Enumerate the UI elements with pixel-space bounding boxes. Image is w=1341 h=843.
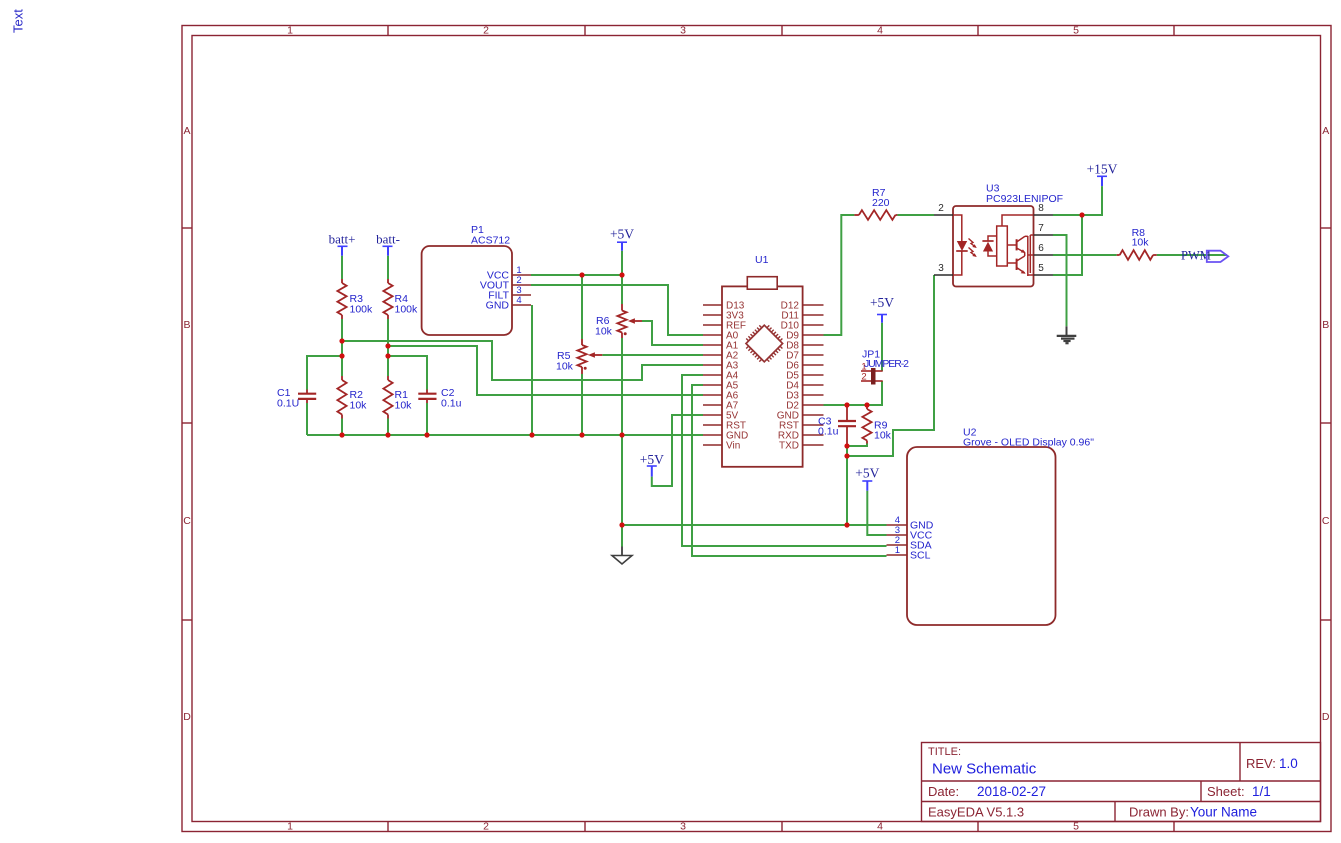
wire net A3 (342, 341, 703, 380)
U1 pin D10 (right) (781, 321, 824, 332)
wire D2 net (824, 381, 883, 405)
junction (619, 522, 624, 527)
junction (619, 272, 624, 277)
junction (619, 432, 624, 437)
svg-text:A: A (183, 125, 190, 137)
wire (426, 403, 428, 435)
U2 pin 2 SDA (887, 535, 932, 552)
wire (341, 256, 343, 279)
wire (1157, 254, 1227, 256)
resistor R4 100k (383, 279, 418, 319)
svg-text:10k: 10k (595, 326, 613, 338)
power flag +5V (855, 466, 879, 491)
trimmer R5 10k (556, 339, 602, 374)
U3 internal wiring (1002, 215, 1034, 276)
svg-text:Date:: Date: (928, 784, 959, 799)
junction (385, 353, 390, 358)
U1 pin A4 (left) (703, 371, 739, 382)
wire (387, 319, 389, 376)
svg-text:1/1: 1/1 (1252, 784, 1271, 799)
svg-text:B: B (183, 319, 190, 331)
U1 pin D4 (right) (786, 381, 823, 392)
U1 pin D9 (right) (786, 331, 823, 342)
U1 pin D12 (right) (781, 301, 824, 312)
svg-text:batt-: batt- (376, 232, 400, 247)
U1 pin A0 (left) (703, 331, 739, 342)
U1 pin 3V3 (left) (703, 311, 744, 322)
optocoupler U3 PC923LENIPOF (953, 183, 1063, 287)
wire (1053, 254, 1117, 256)
wire +5V to U2 VCC (867, 491, 886, 535)
svg-text:Vin: Vin (726, 441, 740, 452)
junction (1079, 212, 1084, 217)
wire 5V pin to +5V (652, 415, 703, 486)
wire A4 to SDA (682, 375, 887, 546)
wire (387, 256, 389, 279)
U3 internal LED (953, 215, 968, 275)
U1 pin A3 (left) (703, 361, 739, 372)
IC U2 Grove OLED Display (907, 427, 1094, 626)
svg-text:0.1u: 0.1u (818, 426, 839, 438)
svg-text:5: 5 (1038, 263, 1044, 274)
svg-text:10k: 10k (874, 430, 892, 442)
junction (579, 432, 584, 437)
svg-text:0.1U: 0.1U (277, 398, 299, 410)
capacitor C2 0.1u (418, 387, 461, 410)
svg-text:10k: 10k (350, 400, 368, 412)
P1 pin 1 VCC (487, 265, 531, 282)
U3 amplifier block (997, 226, 1008, 266)
junction (579, 272, 584, 277)
junction (385, 432, 390, 437)
wire pin5 riser (1053, 215, 1082, 275)
svg-text:1: 1 (895, 545, 900, 556)
U1 pin RXD (right) (778, 431, 824, 442)
ground (triangle) (612, 547, 632, 565)
svg-text:4: 4 (877, 25, 883, 37)
U1 pin 5V (left) (703, 411, 739, 422)
U2 pin 1 SCL (887, 545, 931, 562)
svg-text:+5V: +5V (855, 466, 879, 481)
svg-text:U1: U1 (755, 254, 769, 266)
U1 pin D13 (left) (703, 301, 745, 312)
svg-text:4: 4 (516, 295, 521, 306)
wire (581, 275, 583, 339)
svg-text:3: 3 (680, 821, 686, 833)
wire pin8 to +15V (1053, 186, 1102, 215)
wire (621, 275, 623, 304)
svg-text:3: 3 (680, 25, 686, 37)
svg-text:1: 1 (287, 821, 293, 833)
U1 pin D8 (right) (786, 341, 823, 352)
P1 pin 4 GND (486, 295, 531, 312)
svg-text:GND: GND (486, 300, 510, 312)
svg-text:+5V: +5V (640, 452, 664, 467)
power flag +5V (610, 227, 634, 251)
net flag PWM (1181, 249, 1228, 263)
svg-text:batt+: batt+ (329, 232, 356, 247)
junction (844, 443, 849, 448)
svg-text:Drawn By:: Drawn By: (1129, 805, 1189, 820)
P1 pin 2 VOUT (480, 275, 531, 292)
junction (385, 343, 390, 348)
resistor R3 100k (337, 279, 373, 319)
svg-text:2: 2 (483, 821, 489, 833)
U1 pin D7 (right) (786, 351, 823, 362)
junction (339, 338, 344, 343)
IC P1 ACS712 (422, 224, 512, 335)
svg-text:+15V: +15V (1087, 162, 1118, 177)
capacitor C3 0.1u (818, 405, 856, 446)
junction (339, 353, 344, 358)
wire A5 to SCL (692, 385, 887, 556)
junction (844, 522, 849, 527)
svg-text:1: 1 (287, 25, 293, 37)
P1 pin 3 FILT (488, 285, 531, 302)
junction (844, 402, 849, 407)
svg-text:Grove - OLED Display 0.96": Grove - OLED Display 0.96" (963, 437, 1094, 449)
junction (844, 453, 849, 458)
power flag +5V (640, 452, 664, 477)
jumper JP1 JUMPER-2 (861, 349, 909, 385)
svg-text:TXD: TXD (779, 441, 799, 452)
wire GND bus 2 (622, 524, 887, 526)
svg-text:SCL: SCL (910, 550, 931, 562)
U3 photodiode (982, 236, 996, 256)
svg-text:3: 3 (938, 263, 944, 274)
U1 pin RST (right) (779, 421, 824, 432)
svg-text:2: 2 (483, 25, 489, 37)
svg-text:10k: 10k (1132, 237, 1150, 249)
U2 pin 3 VCC (887, 525, 933, 542)
wire (581, 374, 583, 435)
U1 pin D5 (right) (786, 371, 823, 382)
resistor R8 10k (1117, 227, 1157, 260)
svg-text:6: 6 (1038, 243, 1044, 254)
wire net A6 (388, 346, 703, 395)
U1 pin A5 (left) (703, 381, 739, 392)
U1 pin A2 (left) (703, 351, 739, 362)
svg-text:100k: 100k (395, 304, 419, 316)
capacitor C1 0.1U (277, 387, 316, 410)
wire (621, 338, 623, 547)
U3 light arrows (969, 239, 977, 258)
power flag +5V (870, 295, 894, 323)
net flag batt- (376, 232, 400, 256)
wire (531, 305, 533, 435)
U1 pin GND (left) (703, 431, 748, 442)
IC U1 (MCU module) (722, 254, 803, 467)
U3 pin 7 (1034, 223, 1054, 235)
svg-text:REV:: REV: (1246, 756, 1276, 771)
wire (341, 419, 343, 436)
ground (earth) (1057, 326, 1077, 343)
U3 pin 2 (934, 203, 953, 215)
svg-text:ACS712: ACS712 (471, 235, 510, 247)
power flag +15V (1087, 162, 1118, 186)
wire VOUT to A0 (531, 285, 703, 335)
U3 pin 3 (934, 263, 953, 275)
svg-text:4: 4 (877, 821, 883, 833)
svg-text:D: D (1322, 711, 1330, 723)
resistor R2 10k (337, 376, 367, 419)
U1 pin D3 (right) (786, 391, 823, 402)
wire (307, 356, 342, 390)
svg-text:Text: Text (11, 9, 26, 33)
svg-text:+5V: +5V (610, 227, 634, 242)
wire (847, 444, 867, 447)
U1 pin D11 (right) (781, 311, 823, 322)
wire (306, 403, 308, 435)
U1 pin Vin (left) (703, 441, 740, 452)
wire (897, 214, 934, 216)
svg-text:10k: 10k (395, 400, 413, 412)
svg-text:10k: 10k (556, 361, 574, 373)
U1 pin RST (left) (703, 421, 746, 432)
U1 pin A7 (left) (703, 401, 739, 412)
U3 transistor Q2 (1007, 253, 1025, 274)
resistor R1 10k (383, 376, 412, 419)
U1 pin A6 (left) (703, 391, 739, 402)
svg-text:TITLE:: TITLE: (928, 746, 961, 758)
U1 pin REF (left) (703, 321, 746, 332)
junction (529, 432, 534, 437)
svg-text:Your Name: Your Name (1190, 805, 1257, 820)
U3 pin 6 (1034, 243, 1054, 255)
resistor R7 220 (854, 187, 897, 220)
svg-text:JUMPER-2: JUMPER-2 (864, 358, 909, 370)
U1 chip diamond (746, 325, 783, 362)
svg-text:100k: 100k (350, 304, 374, 316)
junction (424, 432, 429, 437)
trimmer R6 10k (595, 304, 642, 338)
svg-text:8: 8 (1038, 203, 1044, 214)
svg-text:+5V: +5V (870, 295, 894, 310)
junction (339, 432, 344, 437)
svg-text:B: B (1322, 319, 1329, 331)
wire VCC net (531, 274, 622, 276)
svg-text:EasyEDA V5.1.3: EasyEDA V5.1.3 (928, 805, 1024, 820)
wire (387, 419, 389, 436)
wire (881, 323, 883, 371)
resistor R9 10k (862, 405, 891, 444)
wire GND bus (307, 434, 703, 436)
U1 pin D6 (right) (786, 361, 823, 372)
svg-text:1.0: 1.0 (1279, 756, 1298, 771)
svg-text:220: 220 (872, 197, 890, 209)
wire (341, 319, 343, 376)
U1 pin D2 (right) (786, 401, 823, 412)
wire pin7 to ground (1053, 235, 1067, 326)
U1 pin GND (right) (777, 411, 824, 422)
svg-text:New Schematic: New Schematic (932, 761, 1037, 778)
wire (642, 321, 703, 345)
svg-text:2018-02-27: 2018-02-27 (977, 784, 1046, 799)
wire U3 pin3 to filter (847, 275, 934, 456)
net flag batt+ (329, 232, 356, 256)
svg-text:D: D (183, 711, 191, 723)
U1 pin A1 (left) (703, 341, 739, 352)
svg-text:2: 2 (861, 372, 866, 383)
U1 pin TXD (right) (779, 441, 824, 452)
svg-text:5: 5 (1073, 821, 1079, 833)
svg-text:2: 2 (938, 203, 944, 214)
svg-text:0.1u: 0.1u (441, 398, 462, 410)
wire (602, 354, 703, 356)
svg-text:C: C (1322, 515, 1330, 527)
U2 pin 4 GND (887, 515, 934, 532)
svg-text:5: 5 (1073, 25, 1079, 37)
wire D9 to R7 (824, 215, 855, 335)
wire (621, 251, 623, 275)
svg-text:PC923LENIPOF: PC923LENIPOF (986, 193, 1063, 205)
svg-text:C: C (183, 515, 191, 527)
U3 transistor Q1 (1007, 236, 1028, 253)
wire (846, 446, 848, 525)
wire (388, 356, 427, 390)
svg-text:Sheet:: Sheet: (1207, 784, 1245, 799)
svg-text:7: 7 (1038, 223, 1044, 234)
junction (864, 402, 869, 407)
U3 pin 8 (1034, 203, 1054, 215)
svg-text:A: A (1322, 125, 1329, 137)
U3 pin 5 (1034, 263, 1054, 275)
